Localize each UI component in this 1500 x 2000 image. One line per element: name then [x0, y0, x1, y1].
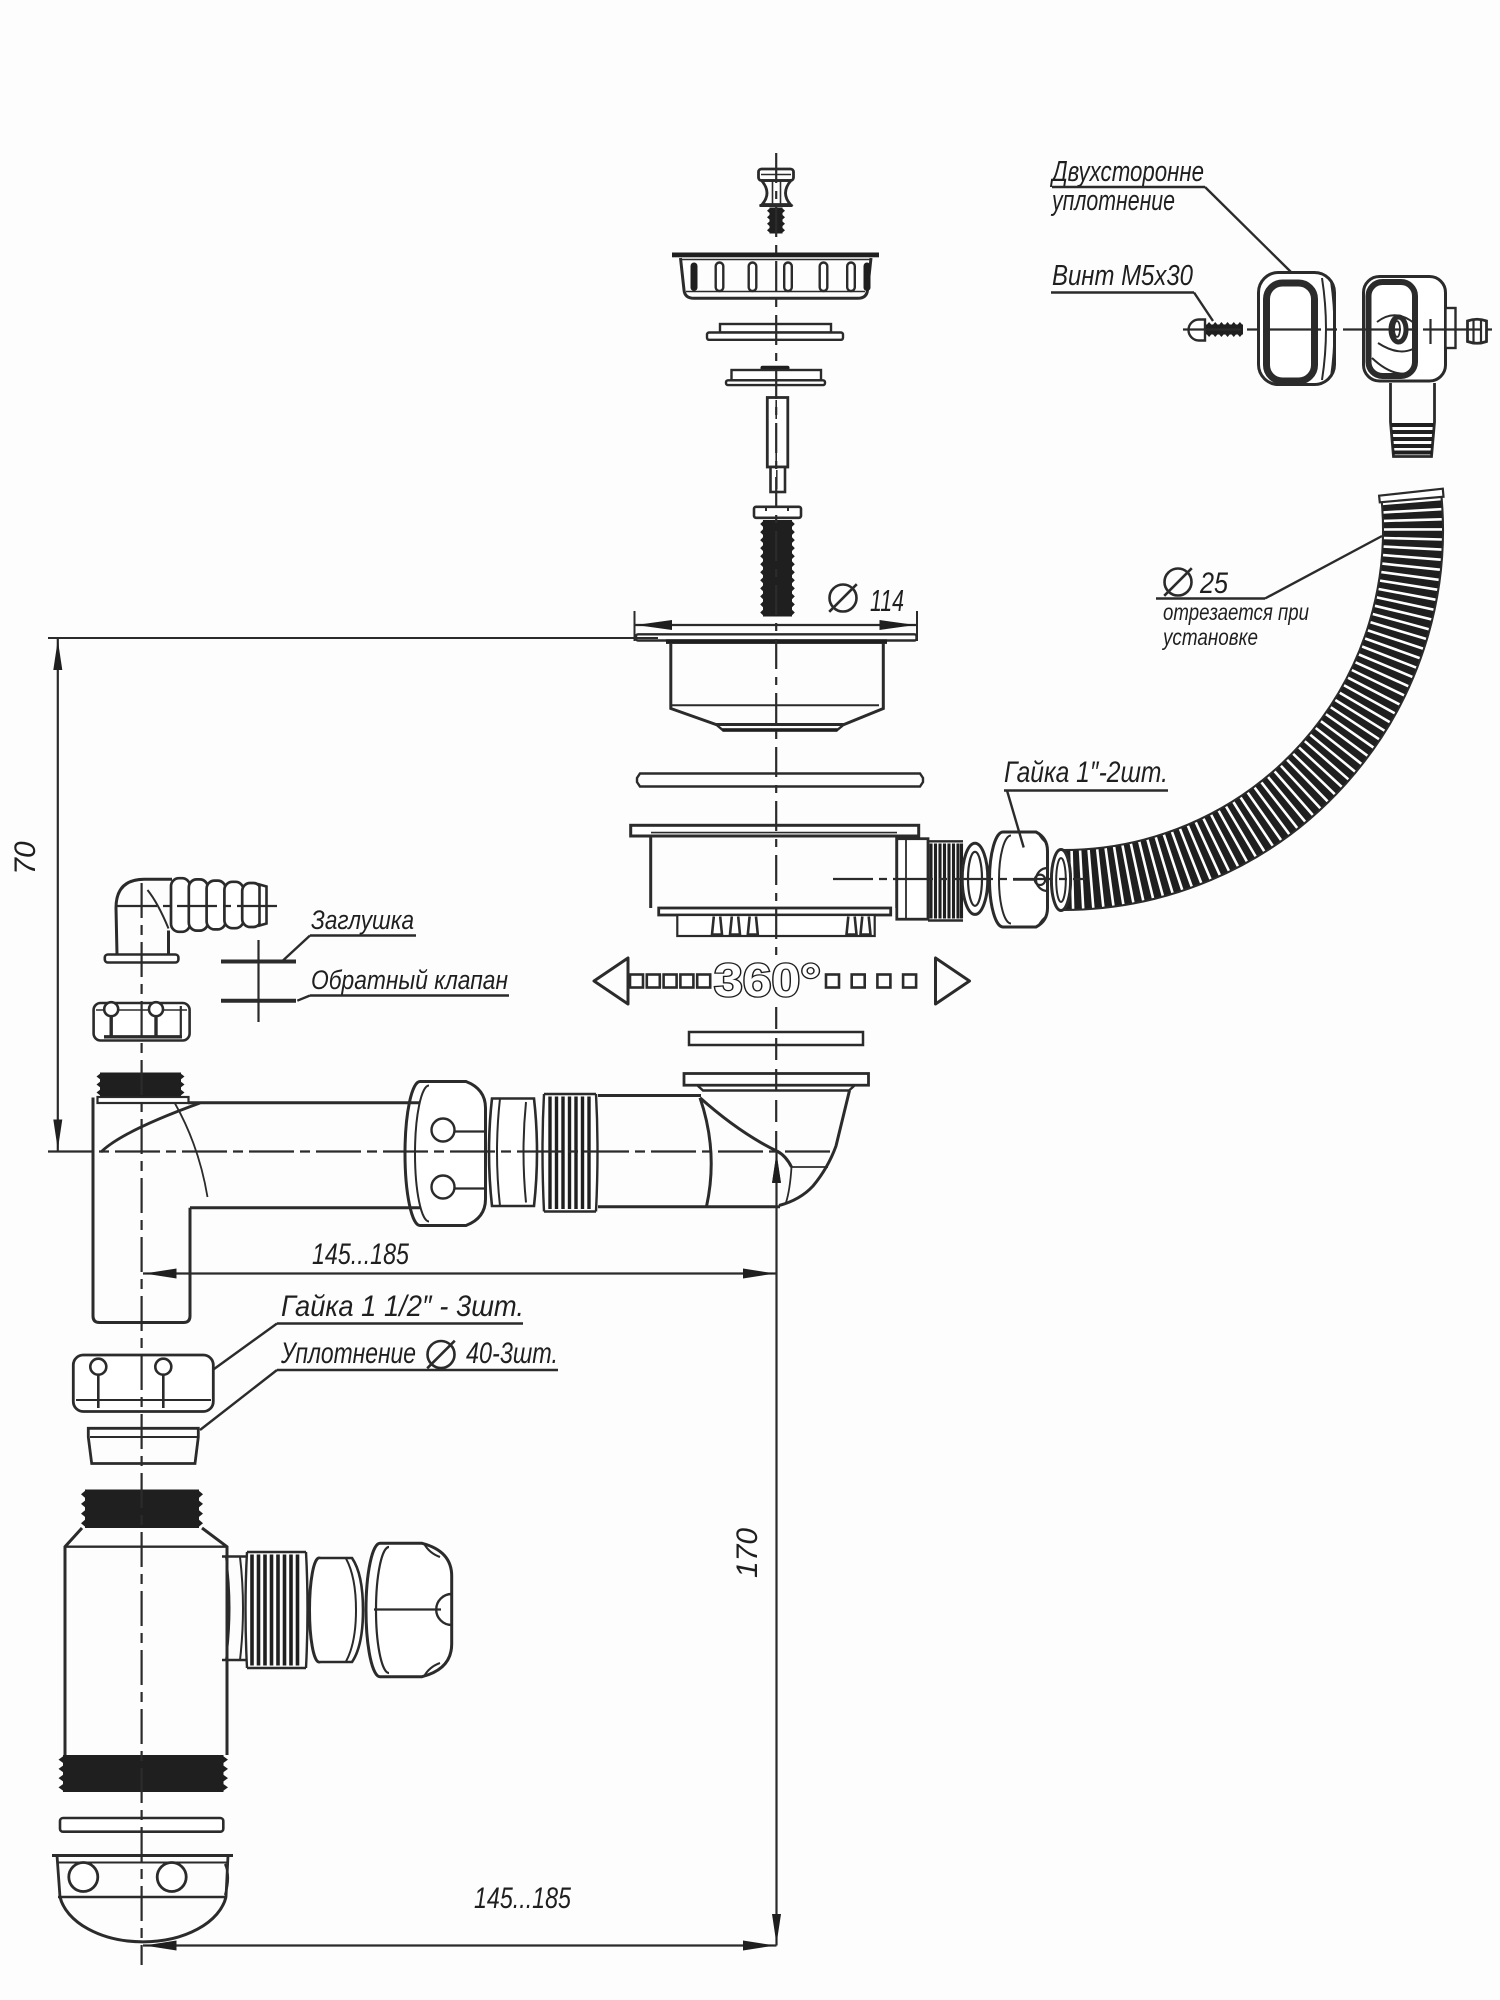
svg-text:Обратный клапан: Обратный клапан [311, 965, 508, 995]
svg-text:Уплотнение: Уплотнение [280, 1337, 416, 1370]
dimension 145-185 lower [143, 1882, 777, 1951]
diameter symbol 114 [830, 585, 857, 612]
rotation arrow right [936, 958, 970, 1004]
knob (stopper handle) [759, 169, 794, 206]
centerline main vertical [775, 153, 777, 958]
label Gaika 1 - 2sht [1004, 756, 1168, 848]
strainer slots [691, 263, 871, 292]
sink flange top rim [636, 634, 917, 644]
label Uplotnenie D40-3sht [200, 1337, 558, 1430]
svg-text:Гайка 1″-2шт.: Гайка 1″-2шт. [1004, 756, 1168, 789]
svg-text:145...185: 145...185 [474, 1882, 571, 1915]
centerline overflow screw [1183, 328, 1492, 330]
svg-text:Двухсторонне: Двухсторонне [1050, 156, 1204, 188]
arrow pipe axis reference [772, 1154, 781, 1182]
centerline funnel vertical [775, 1007, 777, 1150]
label Zaglushka [221, 905, 416, 962]
centerline barb elbow [117, 905, 281, 907]
drain outlet thread [928, 841, 963, 920]
dimension 70 [9, 638, 658, 1152]
lower washer bar [689, 1032, 863, 1045]
knob screw thread [770, 208, 783, 234]
plug check-valve axis [257, 940, 259, 1022]
tailpipe elbow [700, 1098, 828, 1207]
bolt head [754, 507, 801, 518]
trap outlet gasket [310, 1558, 364, 1662]
overflow outlet thread [1391, 383, 1435, 457]
pipe gasket sleeve [489, 1099, 537, 1207]
trap bottom cup [52, 1856, 233, 1942]
svg-text:170: 170 [731, 1528, 764, 1578]
drain body [651, 833, 897, 936]
svg-text:114: 114 [870, 583, 904, 618]
rotation squares right [826, 975, 916, 988]
centerline trap vertical [141, 883, 143, 1965]
friction washer [707, 324, 843, 340]
svg-text:отрезается при: отрезается при [1163, 599, 1309, 625]
bolt thread [763, 520, 792, 617]
svg-text:70: 70 [9, 841, 42, 875]
hose barbs [171, 878, 267, 932]
trap gasket cone [88, 1428, 198, 1463]
label Obratny klapan [221, 965, 509, 1001]
strainer basket body [681, 258, 872, 298]
trap bottom thread band [63, 1755, 224, 1792]
hose end cuff [1051, 850, 1070, 911]
trap inlet thread [85, 1490, 199, 1529]
nut 1 inch [990, 832, 1048, 927]
corrugated overflow hose [1063, 489, 1444, 910]
trap body [65, 1528, 227, 1755]
svg-text:Гайка 1 1/2″ - 3шт.: Гайка 1 1/2″ - 3шт. [281, 1290, 524, 1323]
pipe thread [543, 1094, 598, 1212]
overflow screw M5x30 [1189, 320, 1244, 341]
sink flange funnel [671, 643, 884, 732]
o-ring seal [962, 843, 988, 914]
trap outlet stub [222, 1557, 247, 1661]
flat gasket ring [637, 774, 923, 787]
overflow gasket (two-sided seal) [1259, 273, 1335, 385]
strainer basket rim [672, 253, 879, 258]
label Gaika 1 1/2 - 3sht [203, 1290, 524, 1377]
svg-text:уплотнение: уплотнение [1051, 185, 1175, 217]
svg-text:установке: установке [1161, 624, 1258, 650]
stem [767, 398, 788, 493]
svg-text:360°: 360° [714, 954, 821, 1006]
dimension 145-185 upper [143, 1238, 777, 1279]
lower funnel [698, 1086, 855, 1206]
svg-text:Заглушка: Заглушка [311, 905, 414, 935]
rotation squares left [630, 975, 710, 988]
svg-text:145...185: 145...185 [312, 1238, 409, 1271]
trap inlet nut [73, 1355, 213, 1412]
label Dvukhstoronne uplotnenie [1050, 156, 1293, 274]
pipe nut 1 1/2 [405, 1082, 485, 1226]
label D25 cut at installation [1156, 536, 1382, 650]
centerline pipe horizontal [48, 1150, 832, 1152]
outlet pipe right [598, 1096, 780, 1207]
lower flange bar [684, 1074, 869, 1086]
overflow hex nut [1468, 319, 1487, 344]
barbed elbow fitting [105, 879, 179, 962]
svg-text:25: 25 [1199, 567, 1228, 600]
overflow body [1364, 277, 1456, 382]
rotation arrow left [594, 958, 628, 1004]
trap outlet thread [246, 1552, 308, 1668]
trap outlet nut [366, 1543, 452, 1676]
corner pipe male thread [100, 1073, 181, 1097]
rubber gasket [726, 366, 825, 385]
dimension 170 vertical [731, 1150, 781, 1946]
svg-text:Винт М5х30: Винт М5х30 [1052, 260, 1193, 292]
corner pipe body [93, 1097, 420, 1323]
drain body flange [631, 825, 919, 836]
label Vint M5x30 [1051, 260, 1213, 321]
drain body teeth [712, 917, 871, 935]
drain outlet collar [897, 839, 928, 920]
dimension line D114 [635, 611, 918, 641]
check valve nut [94, 1002, 190, 1040]
svg-text:40-3шт.: 40-3шт. [466, 1337, 558, 1370]
trap slip ring [60, 1818, 223, 1832]
centerline drain outlet [833, 878, 1085, 880]
